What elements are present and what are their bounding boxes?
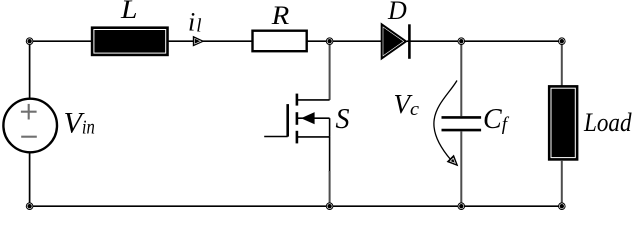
load bbox=[561, 41, 563, 85]
node cap bottom bbox=[458, 202, 466, 210]
svg-text:D: D bbox=[387, 0, 407, 25]
node switch top bbox=[326, 37, 334, 45]
mosfet gate bar bbox=[286, 104, 289, 137]
mosfet channel mid segment bbox=[296, 112, 299, 125]
node top-left bbox=[26, 37, 34, 45]
wire top rail bbox=[30, 40, 562, 42]
node switch bottom bbox=[326, 202, 334, 210]
svg-text:Vin: Vin bbox=[64, 106, 95, 139]
mosfet bulk arrowhead bbox=[302, 113, 314, 124]
svg-text:R: R bbox=[271, 1, 290, 30]
svg-text:Vc: Vc bbox=[394, 89, 420, 120]
wire drain horizontal bbox=[297, 99, 330, 101]
node load bottom bbox=[558, 202, 566, 210]
wire bulk lead bbox=[298, 117, 330, 119]
source V_in bbox=[3, 99, 57, 153]
node cap top bbox=[458, 37, 466, 45]
wire drain vertical bbox=[329, 41, 331, 100]
svg-text:L: L bbox=[120, 0, 138, 24]
current arrow i_l bbox=[193, 36, 203, 46]
inductor L bbox=[91, 27, 168, 56]
wire source vertical bbox=[329, 137, 331, 172]
mosfet channel top segment bbox=[296, 94, 299, 106]
svg-text:il: il bbox=[188, 8, 202, 37]
diode D bbox=[381, 23, 407, 59]
svg-text:Cf: Cf bbox=[483, 104, 510, 135]
wire source horizontal bbox=[297, 136, 330, 138]
transistor S (MOSFET) bbox=[264, 41, 329, 206]
resistor R bbox=[253, 31, 307, 52]
svg-text:S: S bbox=[336, 104, 350, 135]
node dots bbox=[26, 37, 566, 210]
capacitor C_f bbox=[460, 41, 462, 116]
node V_c arc arrow bbox=[434, 81, 457, 161]
node load top bbox=[558, 37, 566, 45]
wire gate lead bbox=[264, 136, 288, 138]
wire bottom rail bbox=[30, 205, 562, 207]
node bottom-left bbox=[26, 202, 34, 210]
mosfet channel bottom segment bbox=[296, 131, 299, 144]
wire left rail bbox=[29, 41, 31, 206]
svg-text:Load: Load bbox=[583, 108, 632, 137]
wire bulk-source vertical bbox=[329, 118, 331, 137]
